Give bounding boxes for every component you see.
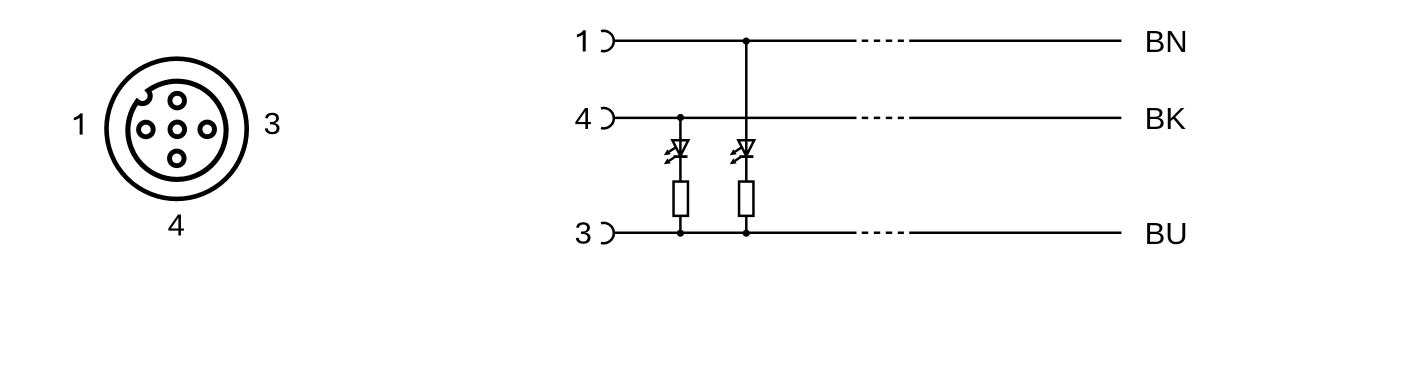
svg-text:4: 4 bbox=[575, 101, 592, 136]
svg-text:BU: BU bbox=[1145, 216, 1188, 251]
svg-text:4: 4 bbox=[168, 208, 185, 243]
wire BK dashed break bbox=[862, 117, 904, 120]
wire BN solid left segment bbox=[614, 39, 857, 42]
pin hole center (pin 5) bbox=[170, 122, 185, 137]
wire branch 1 vertical (pin4 to pin3) bbox=[679, 118, 682, 233]
junction dot line3/branch1 bbox=[677, 230, 684, 237]
wire BN solid right segment bbox=[909, 39, 1121, 42]
wire BK solid right segment bbox=[909, 117, 1121, 120]
wire BK solid left segment bbox=[614, 117, 857, 120]
pin 3 socket contact arc bbox=[601, 223, 614, 243]
wire BU solid left segment bbox=[614, 232, 857, 235]
resistor R2 bbox=[739, 182, 753, 216]
wire BN dashed break bbox=[862, 39, 904, 42]
wire BU dashed break bbox=[862, 232, 904, 235]
svg-text:3: 3 bbox=[264, 106, 281, 141]
junction dot line1/branch2 bbox=[743, 38, 750, 45]
label pin 1 (connector face) bbox=[74, 113, 83, 134]
wire branch 2 vertical (pin1 to pin3) bbox=[745, 41, 748, 233]
LED D2 cathode bar bbox=[739, 155, 753, 158]
pin hole left (pin 1) bbox=[139, 122, 154, 137]
LED D1 triangle bbox=[672, 140, 688, 156]
LED D1 cathode bar bbox=[674, 155, 688, 158]
pin hole bottom (pin 4) bbox=[170, 151, 185, 166]
junction dot line3/branch2 bbox=[743, 230, 750, 237]
svg-text:BN: BN bbox=[1145, 24, 1188, 59]
pin 4 socket contact arc bbox=[601, 108, 614, 128]
svg-text:BK: BK bbox=[1145, 101, 1187, 136]
connector J1 face view outer circle bbox=[107, 59, 247, 199]
pin hole top (pin 2) bbox=[170, 93, 185, 108]
junction dot line4/branch1 bbox=[677, 114, 684, 121]
svg-text:3: 3 bbox=[575, 215, 592, 250]
pin 1 label (schematic) bbox=[577, 30, 586, 51]
LED D1 emission arrow upper bbox=[664, 148, 676, 156]
connector J1 inner circle with keying notch bbox=[128, 81, 226, 179]
wire BU solid right segment bbox=[909, 232, 1121, 235]
LED D2 triangle bbox=[738, 140, 754, 156]
LED D1 emission arrow lower bbox=[664, 157, 675, 164]
LED D2 emission arrow lower bbox=[730, 157, 741, 164]
LED D2 emission arrow upper bbox=[730, 148, 742, 156]
pin hole right (pin 3) bbox=[200, 122, 215, 137]
resistor R1 bbox=[674, 182, 688, 216]
pin 1 socket contact arc bbox=[601, 31, 614, 51]
